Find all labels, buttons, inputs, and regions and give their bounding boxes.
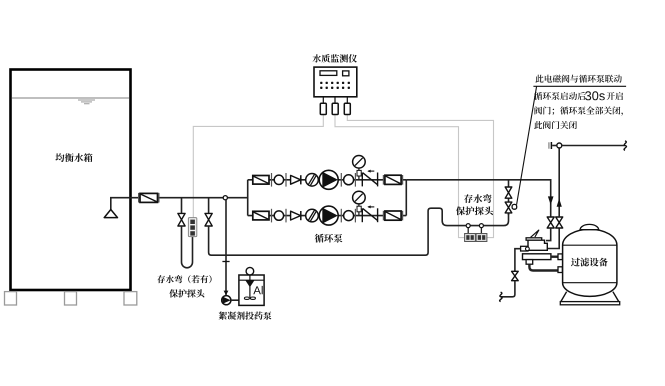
solenoid actuator [512,204,517,209]
monitor buttons [320,82,350,89]
upper discharge flexible joint [344,175,354,185]
label: equalization tank [55,153,92,162]
capped stub left of junction [552,145,557,147]
lower suction strainer box [253,211,269,220]
valve V2 on sampling branch [205,213,212,226]
label: protect probe line2 [169,289,204,297]
lower strainer flange ticks [272,209,403,223]
pipe manifold to filter upper port [551,256,558,258]
trap probe 1 circle [466,224,470,228]
multiport valve handle [531,230,539,237]
probe holder box at tank-side trap [188,218,196,237]
lower butterfly valve circle [306,209,319,222]
branch pipe to tank-side trap [181,198,183,214]
multiport valve left port [521,246,528,251]
filter manway cap [580,224,598,229]
supply pipe into multiport valve [546,228,551,241]
annotation 30s text [585,91,605,100]
monitor display [320,71,337,76]
tank foot middle [65,292,77,305]
monitor cable glands [320,103,350,114]
upper discharge strainer box [385,175,401,184]
drain pipe to waste [501,281,515,297]
drain line to the right [562,145,625,147]
annotation line1 [535,75,621,83]
lower pressure gauge [358,204,360,216]
backwash riser from multiport valve [547,228,559,249]
suction pipe inside tank [111,198,131,210]
water level symbol [78,100,95,104]
dosing pump discharge [231,299,239,301]
upper check valve [362,173,377,187]
annotation line4 [534,121,577,129]
flocculant dosing pump [222,296,231,305]
discharge header (right) [405,180,407,216]
annotation line3 [535,106,623,115]
label: filter equipment [571,258,608,267]
suction bell mouth [104,210,117,218]
annotation leader line [517,86,537,204]
flow arrow down to filter [548,196,554,205]
agitator impeller [244,297,249,299]
instrument cable A: monitor to tank-side probe [193,115,323,219]
label Al [253,286,262,294]
agitator shaft [249,275,251,297]
label: right trap line1 [464,194,492,203]
flocculant tank [239,275,264,305]
water level line [12,97,129,99]
flow arrow up on backwash [557,198,562,206]
label: right trap line2 [456,206,493,215]
upper strainer flange ticks [272,173,403,187]
drain junction node [557,143,562,148]
upper suction strainer box [253,176,269,185]
tank foot left [5,292,17,305]
label: water quality monitor [313,54,358,63]
multiport valve manifold [523,254,551,260]
filter base plate [560,302,619,305]
label: dosing pump [219,311,272,319]
bottom drain valve [512,271,519,280]
valve V1 on tank-side trap branch [178,213,185,226]
label: trap (if any) line1 [157,275,211,283]
filter supply valve [547,217,554,228]
instrument cable B: monitor to trap probe 1 [335,115,465,238]
backwash riser to drain junction [558,148,560,217]
filter legs [561,292,619,302]
drain break symbol [624,141,626,150]
solenoid valve (interlocked) [505,202,512,213]
lower circulation pump [319,206,338,225]
suction header (left) [247,180,249,216]
manual valve above solenoid [505,187,512,198]
inlet pipe from tank to pump header [131,197,248,199]
lower port and pipe to filter lower port [526,260,533,265]
sampling line: branch down, across, up to right trap [208,198,210,214]
waste break symbol [500,292,502,301]
upper butterfly valve circle [306,174,319,187]
filter vessel seams [563,244,617,246]
union tick on dosing line [222,261,229,263]
multiport valve top plate [526,238,542,240]
trap probe 2 circle [479,224,483,228]
upper pressure gauge [358,168,360,180]
monitor small square [343,71,349,76]
label: circulation pump [315,234,343,243]
upper eccentric reducer [291,175,301,184]
lower flexible joint circle [274,211,283,220]
sampling pipe run [209,208,509,255]
lower discharge flexible joint [344,211,354,221]
annotation underline [533,85,626,87]
backwash valve [556,217,563,228]
trap probe 1 stem and box [467,228,469,234]
water quality monitor box [314,67,357,97]
dosing suction line from junction [225,200,227,296]
instrument cable C: monitor to trap probe 2 [347,115,493,238]
riser from trap to main discharge line [508,180,510,215]
monitor cable stems [323,97,347,104]
lower eccentric reducer [291,211,301,220]
annotation line2a [534,92,586,100]
lower check valve [362,208,377,222]
inlet strainer S1 [140,193,158,202]
lower discharge strainer box [385,211,401,220]
filter vessel shell [563,229,617,296]
inlet strainer flange ticks [139,193,159,203]
multiport valve body [528,240,547,250]
U-trap (cun shui wan) near tank [182,226,193,268]
lower pump train line [248,215,407,217]
trap probe 2 stem and box [480,228,482,234]
tank foot right [124,292,137,305]
feed funnel [245,280,254,287]
drain pipe from multiport valve left [515,249,521,272]
annotation line2b [607,92,623,100]
agitator motor [246,267,254,275]
upper circulation pump [319,170,338,189]
equalization water tank body [11,70,131,291]
upper flexible joint circle [274,175,283,184]
flow arrow to dosing pump [224,291,229,296]
main discharge pipe to filter [406,180,550,217]
upper pump train line [248,179,407,181]
junction node on inlet pipe [223,196,227,200]
